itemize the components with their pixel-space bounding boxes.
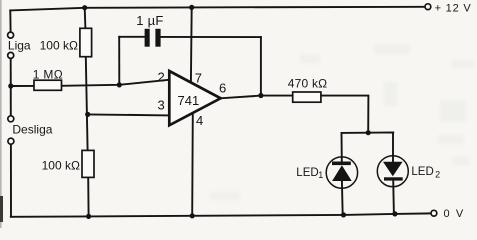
svg-text:470 kΩ: 470 kΩ	[288, 77, 328, 91]
svg-text:Liga: Liga	[8, 38, 31, 52]
svg-text:0 V: 0 V	[444, 208, 465, 220]
svg-text:1 MΩ: 1 MΩ	[33, 68, 63, 82]
svg-text:3: 3	[158, 98, 165, 113]
svg-text:LED: LED	[296, 167, 318, 179]
svg-text:6: 6	[219, 80, 226, 95]
svg-text:+ 12 V: + 12 V	[435, 2, 472, 14]
svg-text:1: 1	[318, 170, 323, 180]
svg-text:LED: LED	[411, 166, 433, 178]
svg-text:100 kΩ: 100 kΩ	[42, 159, 80, 173]
svg-text:1 µF: 1 µF	[136, 13, 163, 28]
svg-text:2: 2	[435, 170, 440, 180]
svg-text:7: 7	[195, 71, 202, 86]
svg-text:Desliga: Desliga	[12, 123, 52, 137]
svg-text:4: 4	[196, 113, 203, 128]
svg-text:100 kΩ: 100 kΩ	[40, 38, 78, 52]
svg-text:2: 2	[158, 69, 165, 84]
svg-text:741: 741	[178, 93, 200, 108]
